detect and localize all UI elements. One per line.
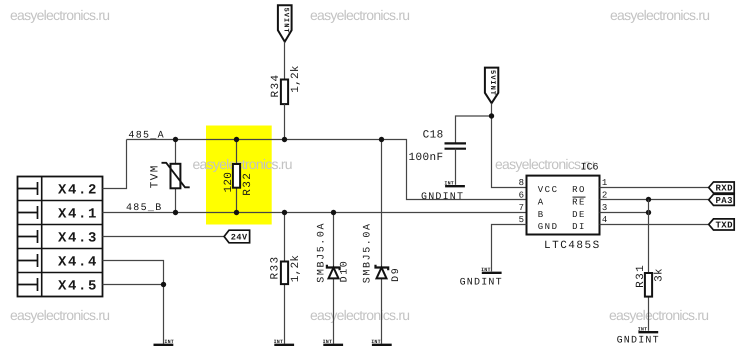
power flag 5VINT left xyxy=(278,5,292,41)
wire pin 2 RE to PA3 xyxy=(600,199,709,201)
svg-text:A: A xyxy=(538,198,545,208)
svg-text:INT: INT xyxy=(444,181,454,187)
svg-text:485_B: 485_B xyxy=(126,203,163,214)
TVS diode D9 xyxy=(363,140,402,344)
junction pin2 / R31 xyxy=(646,197,651,202)
wire X4.5 to ground xyxy=(103,285,164,344)
supply flag 24V xyxy=(224,230,250,243)
svg-text:SMBJ5.0A: SMBJ5.0A xyxy=(363,222,374,283)
svg-text:DE: DE xyxy=(572,210,586,220)
varistor TVM1 xyxy=(149,140,189,213)
svg-text:INT: INT xyxy=(164,339,174,345)
resistor R33 xyxy=(270,213,303,344)
ground GNDINT below R33 xyxy=(274,339,295,345)
svg-text:GNDINT: GNDINT xyxy=(617,336,660,347)
svg-text:RXD: RXD xyxy=(716,184,734,194)
wire 485_A xyxy=(127,140,527,200)
svg-text:SMBJ5.0A: SMBJ5.0A xyxy=(316,222,327,283)
junction 485_B / D10 xyxy=(331,210,336,215)
junction X4.4/X4.5 xyxy=(161,282,166,287)
svg-text:B: B xyxy=(538,210,545,220)
ground GNDINT at connector xyxy=(154,339,175,345)
svg-text:120: 120 xyxy=(223,172,235,193)
svg-text:7: 7 xyxy=(519,203,524,213)
svg-text:X4.1: X4.1 xyxy=(58,207,98,223)
wire pin 1 RO to RXD xyxy=(600,187,709,189)
svg-text:INT: INT xyxy=(323,339,333,345)
junction 485_B / R33 xyxy=(282,210,287,215)
wire C18 to 5VINT net xyxy=(456,116,492,143)
svg-text:D9: D9 xyxy=(391,267,402,282)
resistor R32 xyxy=(223,140,254,213)
svg-text:IC6: IC6 xyxy=(581,163,599,174)
svg-text:4: 4 xyxy=(602,215,607,225)
wire pin 4 DI to TXD xyxy=(600,224,709,226)
wire X4.4 xyxy=(103,261,164,285)
connector X4 xyxy=(18,177,103,297)
IC IC6 LTC485S xyxy=(519,163,608,253)
svg-text:VCC: VCC xyxy=(538,185,559,195)
junction 485_A / R32 xyxy=(234,137,239,142)
svg-text:TVM: TVM xyxy=(149,164,161,188)
flag PA3 xyxy=(709,194,735,206)
svg-text:5VINT: 5VINT xyxy=(281,8,289,34)
junction pin3 / R31 xyxy=(646,210,651,215)
svg-text:R33: R33 xyxy=(270,255,282,279)
svg-text:X4.2: X4.2 xyxy=(58,183,98,199)
capacitor C18 xyxy=(409,130,467,185)
ground GNDINT below D10 xyxy=(323,339,344,345)
svg-text:24V: 24V xyxy=(231,233,248,243)
svg-text:5VINT: 5VINT xyxy=(488,70,496,96)
svg-text:1,2k: 1,2k xyxy=(290,65,302,93)
svg-text:100nF: 100nF xyxy=(409,152,444,164)
svg-text:GNDINT: GNDINT xyxy=(460,277,503,288)
ground GNDINT below R31 xyxy=(617,327,660,347)
svg-text:5: 5 xyxy=(519,215,524,225)
flag TXD xyxy=(709,219,735,231)
ground GNDINT at IC pin 5 xyxy=(460,267,503,288)
svg-text:R31: R31 xyxy=(635,264,647,288)
svg-text:RE: RE xyxy=(572,198,586,208)
svg-text:INT: INT xyxy=(274,339,284,345)
svg-text:easyelectronics.ru: easyelectronics.ru xyxy=(10,7,109,23)
svg-text:485_A: 485_A xyxy=(128,131,165,142)
svg-text:easyelectronics.ru: easyelectronics.ru xyxy=(310,307,409,323)
junction 485_B / R32 xyxy=(234,210,239,215)
svg-text:TXD: TXD xyxy=(716,221,734,231)
svg-text:easyelectronics.ru: easyelectronics.ru xyxy=(609,307,708,323)
flag RXD xyxy=(709,182,735,194)
wire X4.2 to 485_A xyxy=(103,140,127,189)
ground GNDINT below C18 xyxy=(421,181,465,203)
junction C18 / 5VINT xyxy=(489,113,494,118)
svg-text:PA3: PA3 xyxy=(716,196,733,206)
resistor R31 xyxy=(635,200,666,331)
svg-text:easyelectronics.ru: easyelectronics.ru xyxy=(610,7,709,23)
svg-text:6: 6 xyxy=(519,190,524,200)
svg-text:easyelectronics.ru: easyelectronics.ru xyxy=(10,307,109,323)
junction 485_A / TVM1 xyxy=(173,137,178,142)
junction 485_A / D9 xyxy=(379,137,384,142)
svg-text:3: 3 xyxy=(602,203,607,213)
svg-text:1,2k: 1,2k xyxy=(290,255,302,283)
svg-text:8: 8 xyxy=(519,178,524,188)
junction 485_B / TVM1 xyxy=(173,210,178,215)
wire IC pin 5 GND to ground xyxy=(492,225,527,272)
svg-text:X4.5: X4.5 xyxy=(58,279,98,295)
ground GNDINT below D9 xyxy=(371,339,392,345)
wire 5VINT to IC pin 8 xyxy=(492,103,527,187)
svg-text:1: 1 xyxy=(602,178,607,188)
TVS diode D10 xyxy=(316,213,350,344)
svg-text:D10: D10 xyxy=(340,260,351,283)
resistor R34 xyxy=(270,65,302,139)
svg-text:X4.3: X4.3 xyxy=(58,231,98,247)
svg-text:DI: DI xyxy=(572,222,586,232)
svg-text:GND: GND xyxy=(538,222,559,232)
svg-text:easyelectronics.ru: easyelectronics.ru xyxy=(495,156,594,172)
svg-text:INT: INT xyxy=(371,339,381,345)
svg-text:INT: INT xyxy=(638,327,648,333)
wire X4.3 to 24V flag xyxy=(103,236,225,238)
svg-text:3k: 3k xyxy=(654,268,666,282)
svg-text:GNDINT: GNDINT xyxy=(421,192,464,203)
svg-text:R34: R34 xyxy=(270,73,282,97)
svg-text:INT: INT xyxy=(481,267,491,273)
svg-text:RO: RO xyxy=(572,185,586,195)
junction 485_A / R34 xyxy=(282,137,287,142)
wire 485_B xyxy=(103,212,527,214)
svg-text:easyelectronics.ru: easyelectronics.ru xyxy=(193,156,292,172)
wire 5VINT flag to R34 xyxy=(284,42,286,80)
power flag 5VINT right xyxy=(485,68,498,104)
svg-text:C18: C18 xyxy=(423,130,444,142)
wire pin 3 DE stub xyxy=(600,212,649,214)
highlight box around R32 xyxy=(206,126,272,225)
svg-text:easyelectronics.ru: easyelectronics.ru xyxy=(310,7,409,23)
svg-text:R32: R32 xyxy=(242,172,254,196)
svg-text:LTC485S: LTC485S xyxy=(544,240,601,252)
svg-text:X4.4: X4.4 xyxy=(58,255,98,271)
